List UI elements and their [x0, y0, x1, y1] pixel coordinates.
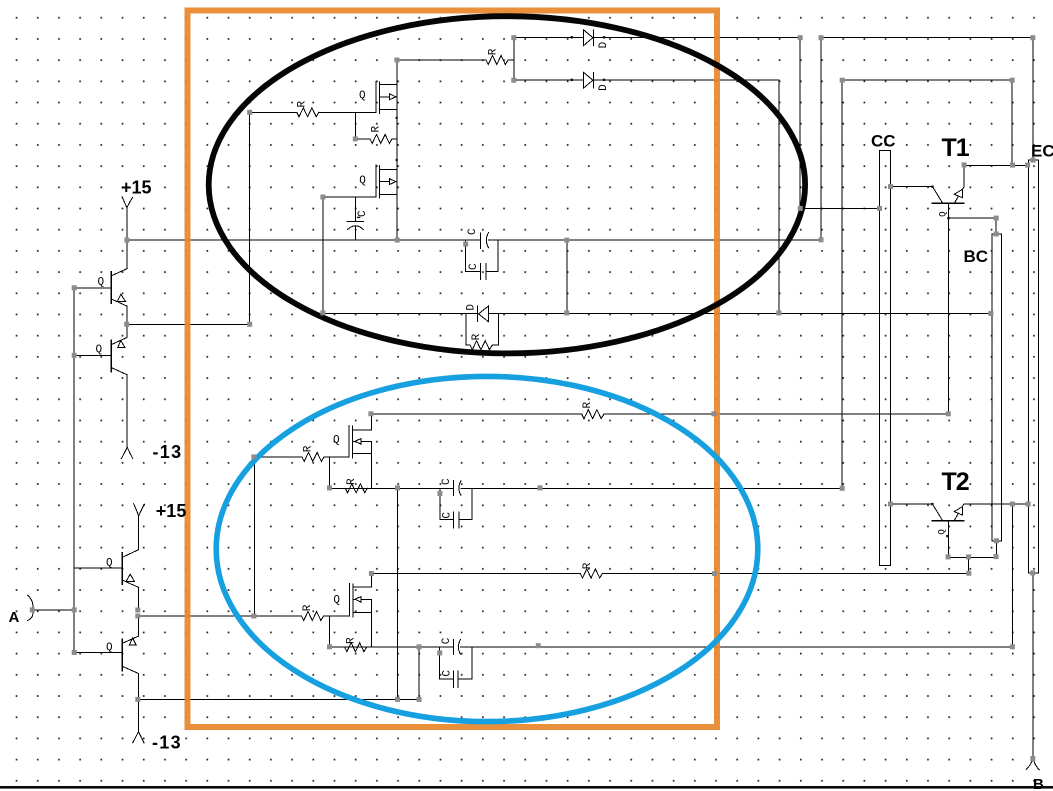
svg-text:C: C: [467, 228, 479, 235]
svg-text:R: R: [302, 445, 314, 452]
svg-text:C: C: [357, 210, 369, 217]
wire diode/resistor net row: [323, 312, 991, 314]
junction Q2 base: [72, 353, 77, 358]
wire M4 drain lead up: [370, 574, 372, 588]
junction M4 source row riser: [417, 644, 422, 649]
resistor R7 (M3 drain row): [582, 410, 604, 419]
annotation ellipse (blue): [216, 376, 758, 721]
svg-text:R: R: [302, 604, 314, 611]
junction M4 drain row end: [966, 571, 971, 576]
junction (+15 upper): [124, 238, 129, 243]
pin dot D1 anode: [571, 36, 573, 38]
wire T1 emitter row: [964, 164, 1028, 166]
junction +15 row right: [564, 238, 569, 243]
junction Q1/Q2 emitters: [124, 322, 129, 327]
wire M3 gate tee down: [329, 457, 331, 488]
junction bottom row riser 419: [417, 697, 422, 702]
pin dot M2 drain: [396, 159, 398, 161]
mosfet M1 (upper, top section): [375, 82, 377, 113]
wire Q1/Q2 emitter to node: [127, 323, 250, 325]
annotation rectangle (orange): [188, 11, 718, 728]
junction EC bar bottom: [1030, 570, 1035, 575]
svg-text:B: B: [1033, 776, 1044, 791]
junction output row start: [135, 614, 140, 619]
junction CC bar right T1: [888, 184, 893, 189]
wire D1 net riser down to CC feed: [799, 38, 801, 209]
junction drain row on border: [712, 571, 717, 576]
svg-text:R: R: [488, 48, 500, 55]
junction port A point: [30, 607, 35, 612]
port A connector: [28, 595, 33, 620]
wire M3 source row: [330, 487, 843, 489]
pin dot D1 cathode: [603, 36, 605, 38]
resistor R10 (M4 drain row): [580, 569, 602, 578]
wire M2 gate net riser down: [322, 197, 324, 313]
wire CC to T2 base-row: [891, 503, 933, 505]
junction M2 gate riser bottom: [320, 310, 325, 315]
junction Q4 collector row: [135, 697, 140, 702]
svg-text:+15: +15: [121, 177, 152, 197]
mosfet M3 (upper, bottom section): [348, 426, 350, 457]
svg-text:Q: Q: [937, 529, 947, 534]
junction bottom row riser 397: [395, 697, 400, 702]
svg-text:Q: Q: [106, 642, 113, 654]
junction R6 left: [327, 485, 332, 490]
junction EC top wire end: [1030, 35, 1035, 40]
wire base rail A: [73, 288, 75, 653]
wire drain row to R: [397, 59, 514, 61]
junction M1 drain: [394, 58, 399, 63]
transistor Q2: [110, 340, 112, 371]
svg-text:CC: CC: [871, 131, 896, 150]
junction T1 base tee: [994, 216, 999, 221]
junction BC bar top: [994, 232, 999, 237]
capacitor C7 (parallel below C6): [440, 647, 472, 679]
wire M3 source rail down: [370, 441, 372, 488]
junction diode split bottom: [511, 78, 516, 83]
junction Q4 base: [72, 650, 77, 655]
wire T1 emitter top net: [842, 80, 1012, 488]
transistor Q3: [121, 553, 123, 584]
junction source row right end: [840, 486, 845, 491]
junction source rail at +15 row: [395, 238, 400, 243]
svg-text:C: C: [441, 637, 453, 644]
junction C7 left: [437, 650, 442, 655]
junction R5 input: [251, 454, 256, 459]
svg-text:R: R: [297, 101, 309, 108]
capacitor C6 (inline source row): [453, 639, 455, 654]
junction Q1 base: [72, 285, 77, 290]
svg-text:Q: Q: [98, 276, 105, 288]
junction CC bar left: [877, 206, 882, 211]
capacitor C2 (inline on +15 rail): [480, 233, 482, 249]
junction port B fork: [1030, 756, 1035, 761]
junction T1 emitter net top: [1010, 78, 1015, 83]
junction +15 rail right end: [819, 237, 824, 242]
wire gate tee down: [354, 112, 356, 139]
svg-text:C: C: [441, 670, 453, 677]
port B connector: [1026, 759, 1039, 770]
junction CC bar right T2: [888, 502, 893, 507]
wire +15 rail right tee down: [566, 240, 568, 313]
junction T1 emitter riser: [962, 162, 967, 167]
svg-text:R: R: [471, 333, 483, 340]
annotation ellipse (black): [209, 16, 805, 353]
resistor R6 (M3 gate-source): [330, 487, 372, 489]
wire M3 drain row to T1 base: [371, 413, 949, 415]
svg-text:D: D: [465, 304, 477, 311]
junction M2 gate row: [320, 195, 325, 200]
svg-text:EC: EC: [1031, 141, 1053, 160]
pin dot C1 plus mark: [357, 217, 360, 218]
svg-text:C: C: [441, 478, 453, 485]
wire M4 gate tee down: [329, 616, 331, 647]
wire diode D1 row: [514, 37, 800, 39]
wire riser to top gate network: [249, 112, 251, 324]
svg-text:R: R: [345, 637, 357, 644]
pin dot T2 base stem: [946, 535, 948, 537]
wire Q4 collector row: [139, 698, 420, 700]
svg-text:C: C: [468, 263, 480, 270]
wire CC feed row: [800, 207, 879, 209]
resistor R8 (M4 gate series): [138, 615, 350, 617]
junction R2 left: [353, 136, 358, 141]
wire source row riser at 419: [418, 647, 420, 699]
junction M4 drain top: [369, 571, 374, 576]
svg-text:R: R: [371, 126, 383, 133]
svg-text:A: A: [9, 609, 20, 626]
junction EC bar top: [1031, 158, 1036, 163]
junction C5 left: [437, 491, 442, 496]
svg-text:D: D: [598, 41, 610, 48]
junction EC bar left T2: [1026, 502, 1031, 507]
svg-text:BC: BC: [964, 247, 989, 266]
junction M3 drain row end: [946, 411, 951, 416]
junction source row riser top: [395, 485, 400, 490]
junction D1 row end: [798, 35, 803, 40]
svg-text:T1: T1: [942, 134, 970, 162]
wire M4 drain row to T2 base net: [371, 573, 968, 575]
wire D2 net riser down: [778, 80, 780, 313]
junction source row 2 end: [1010, 644, 1015, 649]
wire T2 emitter net riser down: [1011, 504, 1013, 647]
wire CC to T1 base-row: [891, 186, 933, 188]
svg-text:Q: Q: [333, 594, 340, 606]
svg-text:+15: +15: [156, 501, 187, 521]
svg-text:R: R: [346, 478, 358, 485]
resistor R5 (M3 gate series): [254, 456, 349, 458]
diode D2: [584, 72, 593, 88]
wire output riser to gate network: [253, 457, 255, 616]
svg-text:T2: T2: [942, 468, 969, 496]
wire T2 emitter row: [964, 503, 1028, 505]
junction C3 left: [463, 242, 468, 247]
node -13 (bottom fork below Q4): [133, 732, 144, 743]
diode D1: [584, 30, 593, 46]
pin dot T2 base wire: [931, 503, 933, 505]
transistor Q4: [121, 639, 123, 670]
junction R9 left: [327, 644, 332, 649]
svg-text:Q: Q: [938, 211, 948, 216]
node -13 (fork below Q2): [121, 447, 132, 458]
wire +15 stem to junction: [126, 208, 128, 241]
svg-text:Q: Q: [359, 175, 366, 187]
wire T2 base net riser to M4 drain row: [968, 557, 970, 573]
junction diode split top: [511, 35, 516, 40]
junction emitter row x1012: [1010, 163, 1015, 168]
svg-text:C: C: [442, 512, 454, 519]
junction T2 emitter x1012: [1010, 502, 1015, 507]
junction source row mid: [538, 485, 543, 490]
transistor T1: [933, 202, 964, 204]
junction D2 net riser bottom: [776, 310, 781, 315]
svg-text:Q: Q: [359, 90, 366, 102]
bottom window border: [0, 786, 1053, 789]
pin dot T1 base stem: [947, 217, 949, 219]
wire T2 base row: [949, 556, 997, 558]
wire M4 source row: [330, 646, 1013, 648]
junction drain row 1 on border: [711, 411, 716, 416]
transistor Q1: [110, 272, 112, 303]
junction Q3 emitter end: [135, 608, 140, 613]
junction BC bar left: [988, 311, 993, 316]
pin dot D2 anode: [571, 79, 573, 81]
junction emitter row end: [247, 322, 252, 327]
resistor R9 (M4 gate-source): [330, 646, 372, 648]
wire drain rail (top totem): [396, 60, 398, 240]
svg-text:R: R: [582, 562, 594, 569]
resistor bar CC: [880, 151, 891, 566]
diode D3: [477, 306, 479, 321]
node +15 (lower power fork): [134, 504, 145, 516]
mosfet M4 (lower, bottom section): [349, 584, 351, 616]
capacitor C1 (gate cap): [355, 197, 357, 221]
svg-text:-13: -13: [153, 442, 183, 462]
wire EC bottom to port B: [1032, 573, 1034, 758]
resistor bar EC: [1029, 160, 1039, 573]
wire source row riser down: [397, 488, 399, 699]
wire output node (emitters of Q3/Q4 to output): [138, 615, 255, 617]
junction A to rail: [72, 607, 77, 612]
node +15 (upper power fork): [122, 197, 132, 208]
junction M3 drain top: [368, 411, 373, 416]
junction gate net top: [247, 110, 252, 115]
capacitor C5 (parallel below C4): [440, 488, 472, 519]
junction T2 base row left: [946, 554, 951, 559]
junction output riser bottom: [251, 614, 256, 619]
wire EC top net: [821, 38, 1033, 240]
pin dot D2 cathode: [603, 79, 605, 81]
pin dot T1 base wire: [931, 186, 933, 188]
junction CC feed: [798, 206, 803, 211]
capacitor C4 (inline source row): [453, 480, 455, 495]
junction source row 2 mid: [536, 643, 541, 648]
wire A to base rail: [32, 609, 74, 611]
transistor T2: [932, 520, 963, 522]
wire T1 base to BC top: [949, 218, 997, 234]
resistor R3 (top drain): [486, 56, 508, 65]
wire diode D2 row: [514, 79, 779, 81]
wire M4 source rail down: [370, 599, 372, 647]
junction D2 row right start: [840, 78, 845, 83]
resistor bar BC: [992, 234, 1002, 541]
wire M3 drain lead up: [370, 414, 372, 430]
junction EC bar left upper: [1025, 163, 1030, 168]
resistor R4 (parallel with D3): [466, 313, 498, 345]
svg-text:-13: -13: [152, 733, 182, 753]
mosfet M2 (lower, top section): [375, 165, 377, 197]
resistor R1 (top gate series): [250, 111, 376, 113]
svg-text:D: D: [598, 84, 610, 91]
wire net N1 (+15 source rail) left segment: [127, 239, 821, 241]
pin dot M1 source: [396, 117, 398, 119]
resistor R2 (top gate-source): [355, 138, 397, 140]
wire diode split vertical: [513, 38, 515, 80]
svg-text:Q: Q: [96, 344, 103, 356]
junction BC bar bottom: [994, 538, 999, 543]
wire M2 gate row: [323, 196, 376, 198]
junction EC top wire start: [819, 35, 824, 40]
junction T2 base row mid: [966, 554, 971, 559]
wire +15 stem to Q3: [138, 516, 140, 550]
junction BC bottom lead: [994, 554, 999, 559]
svg-text:Q: Q: [106, 557, 113, 569]
svg-text:Q: Q: [333, 435, 340, 447]
wire BC bottom lead: [995, 541, 997, 558]
svg-text:R: R: [582, 402, 594, 409]
junction D-R net right: [564, 310, 569, 315]
capacitor C3 (parallel below C2): [466, 240, 499, 271]
